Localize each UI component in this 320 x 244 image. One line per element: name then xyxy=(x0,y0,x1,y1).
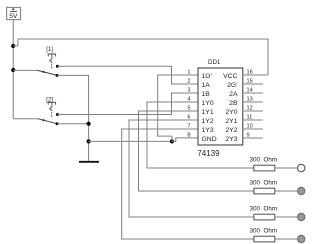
switch SA1 contacts xyxy=(56,65,59,68)
svg-text:11: 11 xyxy=(247,115,253,121)
junction node gnd-pin8 xyxy=(170,139,174,143)
svg-text:7: 7 xyxy=(187,124,190,130)
svg-text:8: 8 xyxy=(187,133,190,139)
svg-text:2Y1: 2Y1 xyxy=(225,118,237,125)
svg-text:2A: 2A xyxy=(229,91,238,98)
switch SA1 arm xyxy=(38,70,57,75)
svg-text:1Y0: 1Y0 xyxy=(202,100,214,107)
svg-text:10: 10 xyxy=(247,124,253,130)
svg-text:9: 9 xyxy=(247,133,250,139)
junction node switch 1 feed xyxy=(11,68,15,72)
svg-text:1Y3: 1Y3 xyxy=(202,127,214,134)
svg-text:74139: 74139 xyxy=(197,149,220,158)
wire bus to switch 2 pivot xyxy=(13,118,38,120)
svg-text:GND: GND xyxy=(202,136,217,143)
svg-text:DD1: DD1 xyxy=(208,59,221,66)
IC DD1 74139 box xyxy=(198,68,243,145)
svg-text:1: 1 xyxy=(187,70,190,76)
svg-text:14: 14 xyxy=(247,88,253,94)
wire ground rail xyxy=(89,140,172,142)
svg-text:300 Ohm: 300 Ohm xyxy=(250,179,278,186)
svg-text:300 Ohm: 300 Ohm xyxy=(250,227,278,234)
svg-text:13: 13 xyxy=(247,97,253,103)
power source G1 +5V xyxy=(7,7,21,19)
wire pin7 1Y3 to R4 xyxy=(122,129,254,239)
switch SA2 pushbutton actuator xyxy=(48,102,55,116)
resistor R3 300 Ohm xyxy=(254,214,275,220)
svg-text:2Y0: 2Y0 xyxy=(225,109,237,116)
wire R1 to probe xyxy=(275,167,298,169)
wire pin8 GND jog xyxy=(172,138,198,142)
svg-text:3: 3 xyxy=(187,88,190,94)
ground symbol xyxy=(79,161,99,163)
svg-text:2: 2 xyxy=(187,79,190,85)
wire R4 to probe xyxy=(275,238,298,240)
junction node top rail xyxy=(11,44,15,48)
svg-text:[1]: [1] xyxy=(46,47,53,53)
wire pin5 1Y1 to R2 xyxy=(139,111,255,191)
wire switch1 lower contact to ground bus xyxy=(57,75,89,160)
junction node switch2-ground xyxy=(87,122,91,126)
switch SA1 pushbutton actuator xyxy=(48,54,55,68)
svg-text:16: 16 xyxy=(247,70,253,76)
svg-text:2Y2: 2Y2 xyxy=(225,127,237,134)
probe lamp X3 (on) xyxy=(298,213,305,220)
IC right pin labels xyxy=(223,73,238,143)
svg-text:15: 15 xyxy=(247,79,253,85)
svg-text:1A: 1A xyxy=(202,82,211,89)
probe lamp X2 (on) xyxy=(298,187,305,194)
wire switch2 lower contact to ground bus xyxy=(57,123,89,125)
svg-text:1B: 1B xyxy=(202,91,211,98)
svg-text:5: 5 xyxy=(187,106,190,112)
IC left pin labels xyxy=(202,73,217,143)
wire pin1 1G enable to ground xyxy=(158,75,198,141)
svg-text:300 Ohm: 300 Ohm xyxy=(250,156,278,163)
wire pin6 1Y2 to R3 xyxy=(129,120,254,217)
svg-text:12: 12 xyxy=(247,106,253,112)
svg-text:4: 4 xyxy=(187,97,190,103)
wire switch1 upper contact to pin2 1A xyxy=(57,66,198,84)
svg-text:2B: 2B xyxy=(229,100,238,107)
svg-text:1Y1: 1Y1 xyxy=(202,109,214,116)
junction node ground net xyxy=(87,139,91,143)
resistor R4 300 Ohm xyxy=(254,236,275,242)
wire top +5V rail xyxy=(18,39,268,75)
wire to switch 1 pivot xyxy=(13,69,38,71)
wire jog to top rail xyxy=(13,39,18,46)
svg-text:300 Ohm: 300 Ohm xyxy=(250,205,278,212)
wire switch2 upper contact to pin3 1B xyxy=(57,93,198,115)
right pin numbers xyxy=(247,70,253,139)
wire pin4 1Y0 to R1 xyxy=(147,102,254,168)
svg-text:1Y2: 1Y2 xyxy=(202,118,214,125)
switch SA2 contacts xyxy=(56,113,59,116)
probe lamp X4 (on) xyxy=(298,235,305,242)
right unused pin stubs 15-9 xyxy=(243,84,264,138)
resistor R2 300 Ohm xyxy=(254,188,275,194)
svg-text:1G′: 1G′ xyxy=(202,73,213,80)
wire R3 to probe xyxy=(275,216,298,218)
switch SA2 arm xyxy=(38,119,57,124)
svg-text:2G′: 2G′ xyxy=(227,82,238,89)
resistor R1 300 Ohm xyxy=(254,165,275,171)
wire R2 to probe xyxy=(275,190,298,192)
svg-text:6: 6 xyxy=(187,115,190,121)
left pin numbers xyxy=(187,70,190,139)
wire +5V down from source xyxy=(12,20,14,119)
svg-text:5V: 5V xyxy=(9,13,18,20)
pin16 VCC stub xyxy=(243,74,269,76)
svg-text:VCC: VCC xyxy=(223,73,237,80)
svg-text:2Y3: 2Y3 xyxy=(225,136,237,143)
probe lamp X1 (off) xyxy=(298,164,305,171)
